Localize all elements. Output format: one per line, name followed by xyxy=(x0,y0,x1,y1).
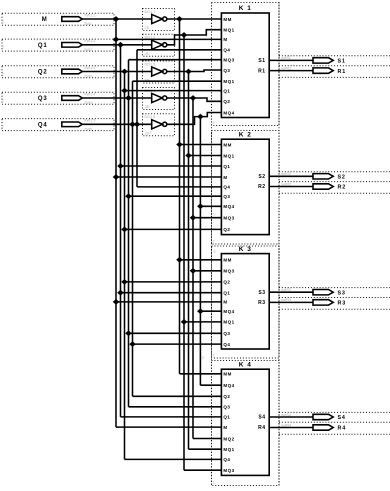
svg-text:R2: R2 xyxy=(338,185,347,191)
svg-text:Q4: Q4 xyxy=(223,457,230,462)
K3 pin 1 wire (MM) xyxy=(180,259,222,261)
K4 pin 4 wire (Q3) xyxy=(129,406,222,408)
inverter DD3 box xyxy=(143,61,175,83)
K3 pin 6 wire (MQ4) xyxy=(200,310,221,312)
svg-text:2: 2 xyxy=(213,121,215,125)
svg-text:MM: MM xyxy=(223,372,232,377)
K4 pin 8 wire (MQ1) xyxy=(189,448,222,450)
wire /Q1 inverter out elbow xyxy=(167,30,222,45)
svg-text:K 1: K 1 xyxy=(239,5,252,12)
K2 pin 7 wire (MQ4) xyxy=(200,205,221,207)
junction /M bus to K2 pin 1 xyxy=(176,142,183,148)
K2 pin 6 wire (Q3) xyxy=(129,195,222,197)
junction /Q4 bus to K3 pin 6 xyxy=(197,308,204,314)
output terminal R2 xyxy=(313,184,333,189)
svg-text:2D: 2D xyxy=(145,26,150,30)
junction Q3 tap xyxy=(125,95,132,101)
junction Q1 tap xyxy=(117,42,124,48)
wire Q4 to inverter DD5 xyxy=(82,123,151,125)
junction Q2 bus to K3 pin 3 xyxy=(121,279,128,285)
svg-text:Q1: Q1 xyxy=(223,88,230,93)
svg-text:M: M xyxy=(223,300,227,305)
module K1 body xyxy=(221,13,269,118)
K2 pin 3 wire (Q1) xyxy=(121,165,222,167)
module K2 dotted box xyxy=(212,131,280,245)
svg-text:M: M xyxy=(223,175,227,180)
svg-text:S2: S2 xyxy=(258,174,265,180)
wire Q3 to inverter DD4 xyxy=(82,97,151,99)
junction Q2 bus to K2 pin 9 xyxy=(121,227,128,233)
svg-text:S1: S1 xyxy=(258,58,265,64)
wire /Q2 inverter out to K1 pin6 xyxy=(167,70,222,72)
svg-text:S3: S3 xyxy=(258,290,265,296)
svg-text:Q2: Q2 xyxy=(223,394,230,399)
svg-text:ZW1: ZW1 xyxy=(84,22,92,26)
svg-text:Q3: Q3 xyxy=(223,331,230,336)
K4 pin 5 wire (Q1) xyxy=(121,416,222,418)
K2 pin 2 wire (MQ1) xyxy=(189,155,222,157)
K3 pin 2 wire (MQ3) xyxy=(193,270,221,272)
svg-text:DD1.3: DD1.3 xyxy=(145,62,156,66)
svg-text:Q3: Q3 xyxy=(223,68,230,73)
svg-text:MM: MM xyxy=(223,17,232,22)
svg-text:R2: R2 xyxy=(258,184,266,190)
junction Q2 bus to K1 pin 8 xyxy=(121,88,128,94)
K2 pin 9 wire (Q2) xyxy=(125,228,222,230)
svg-text:MQ4: MQ4 xyxy=(223,110,234,115)
svg-text:R4: R4 xyxy=(338,426,347,432)
svg-text:S1: S1 xyxy=(338,59,346,65)
svg-text:Q4: Q4 xyxy=(223,48,230,53)
output terminal S2 xyxy=(313,174,333,179)
K3 pin 9 wire (Q4) xyxy=(133,343,222,345)
K3 pin 5 wire (M) xyxy=(116,301,221,303)
junction /M bus to K3 pin 1 xyxy=(176,257,183,263)
svg-text:R1: R1 xyxy=(338,69,347,75)
wire vertical Q2 bus xyxy=(124,72,126,460)
wire vertical /Q4 bus xyxy=(199,117,201,386)
module K2 body xyxy=(221,139,269,234)
wire Q1 to inverter DD2 xyxy=(82,44,151,46)
K3 pin 4 wire (Q1) xyxy=(121,292,222,294)
svg-text:2: 2 xyxy=(214,250,216,254)
junction M bus to K3 pin 5 xyxy=(113,299,120,305)
junction Q4 bus to K3 pin 9 xyxy=(129,341,136,347)
junction /Q4 bus tap xyxy=(197,114,204,120)
wire vertical /Q2 bus xyxy=(188,72,190,450)
junction Q4 tap xyxy=(129,121,136,127)
wire vertical Q1 bus xyxy=(120,45,122,417)
wire vertical /Q1 bus xyxy=(183,35,185,470)
junction Q3 bus to K2 pin 6 xyxy=(125,193,132,199)
module K4 dotted box xyxy=(212,361,280,486)
svg-text:Q1: Q1 xyxy=(223,291,230,296)
input row box Q1 xyxy=(2,39,114,51)
svg-text:2D: 2D xyxy=(145,52,150,56)
K1 pin 8 wire (Q1) xyxy=(125,90,222,92)
svg-text:MQ3: MQ3 xyxy=(223,216,234,221)
inverter DD1 box xyxy=(143,9,175,31)
svg-text:MQ4: MQ4 xyxy=(223,309,234,314)
svg-text:MM: MM xyxy=(223,258,232,263)
svg-text:Q4: Q4 xyxy=(223,342,230,347)
inverter DD4 (Q3) xyxy=(152,93,163,102)
module K1 dotted box xyxy=(212,3,280,126)
svg-text:Q4: Q4 xyxy=(223,185,230,190)
junction /Q4 bus to K2 pin 7 xyxy=(197,203,204,209)
svg-text:2: 2 xyxy=(2,99,4,103)
svg-text:Q2: Q2 xyxy=(223,227,230,232)
K1 pin 4 wire (Q4) xyxy=(137,49,221,51)
svg-text:outR2: outR2 xyxy=(281,182,291,186)
svg-text:S4: S4 xyxy=(258,415,265,421)
svg-text:Q1: Q1 xyxy=(223,415,230,420)
svg-text:ZW4: ZW4 xyxy=(84,101,92,105)
junction /Q3 bus tap xyxy=(190,95,197,101)
svg-text:R4: R4 xyxy=(258,425,266,431)
svg-text:2: 2 xyxy=(213,240,215,244)
svg-text:XW1:3: XW1:3 xyxy=(84,66,95,70)
svg-text:MM: MM xyxy=(223,142,232,147)
wire /Q4 inverter out to K1 pin10 xyxy=(167,113,222,125)
svg-text:R3: R3 xyxy=(338,301,347,307)
svg-text:2: 2 xyxy=(202,356,204,360)
inverter DD1 (M) xyxy=(152,14,163,23)
inverter DD2 (Q1) xyxy=(152,40,163,49)
wire vertical Q4 bus xyxy=(132,81,134,396)
output terminal R1 xyxy=(313,68,333,73)
svg-text:Q1: Q1 xyxy=(223,164,230,169)
K4 pin 1 wire (MM) xyxy=(180,373,222,375)
svg-text:outS1: outS1 xyxy=(281,56,291,60)
junction Q1 bus to K2 pin 3 xyxy=(117,163,124,169)
input terminal Q1 xyxy=(62,43,83,48)
wire /M inverter out to K1 pin1 xyxy=(167,18,222,20)
K4 pin 6 wire (M) xyxy=(116,426,221,428)
svg-text:M: M xyxy=(223,37,227,42)
svg-text:S3: S3 xyxy=(338,290,346,296)
K4 pin 7 wire (MQ2) xyxy=(193,438,221,440)
K1 pin 3 wire (M) xyxy=(116,38,221,40)
svg-text:MQ1: MQ1 xyxy=(223,447,234,452)
input terminal M xyxy=(62,17,83,22)
svg-text:MQ3: MQ3 xyxy=(223,269,234,274)
junction /Q3 bus to K3 pin 2 xyxy=(190,268,197,274)
K4 pin 3 wire (Q2) xyxy=(133,395,222,397)
svg-text:outR1: outR1 xyxy=(281,66,291,70)
svg-text:R1: R1 xyxy=(258,68,266,74)
output row dotted lines S1/R1 xyxy=(279,55,390,57)
inverter DD4 box xyxy=(143,88,175,110)
svg-text:DD1.5: DD1.5 xyxy=(145,115,156,119)
output terminal S3 xyxy=(313,290,333,295)
svg-text:Q4: Q4 xyxy=(38,123,48,129)
output row dotted lines S4/R4 xyxy=(279,411,390,413)
junction /M bus tap xyxy=(176,16,183,22)
K2 pin 1 wire (MM) xyxy=(180,144,222,146)
input row box M xyxy=(2,13,114,25)
junction M tap xyxy=(113,16,120,22)
svg-text:Q2: Q2 xyxy=(38,70,48,76)
wire vertical /Q3 bus xyxy=(192,98,194,439)
K1 pin 7 wire (MQ1) xyxy=(133,80,222,82)
svg-text:S2: S2 xyxy=(338,175,346,181)
wire M to inverter DD1 xyxy=(82,18,151,20)
svg-text:MQ4: MQ4 xyxy=(223,383,234,388)
svg-text:M: M xyxy=(42,17,48,23)
input row box Q2 xyxy=(2,66,114,78)
svg-text:MQ1: MQ1 xyxy=(223,153,234,158)
K3 pin 3 wire (Q2) xyxy=(125,281,222,283)
svg-text:outS3: outS3 xyxy=(281,288,291,292)
svg-text:outR4: outR4 xyxy=(281,423,291,427)
junction /Q2 bus tap xyxy=(185,69,192,75)
svg-text:2: 2 xyxy=(2,20,4,24)
input terminal Q4 xyxy=(62,122,83,127)
K4 pin 2 wire (MQ4) xyxy=(200,384,221,386)
module K3 dotted box xyxy=(212,246,280,358)
output row dotted lines S3/R3 xyxy=(279,287,390,289)
svg-text:R3: R3 xyxy=(258,300,266,306)
svg-text:MQ1: MQ1 xyxy=(223,28,234,33)
junction /Q2 bus to K2 pin 2 xyxy=(185,153,192,159)
wire /Q3 inverter out to K1 pin9 xyxy=(167,98,222,101)
output terminal R4 xyxy=(313,425,333,430)
output terminal S4 xyxy=(313,414,333,419)
svg-text:2: 2 xyxy=(2,72,4,76)
input terminal Q2 xyxy=(62,69,83,74)
svg-text:Q2: Q2 xyxy=(223,280,230,285)
wire Q2 to inverter DD3 xyxy=(82,71,151,73)
wire vertical Q4 bus b xyxy=(136,50,138,187)
svg-text:K 2: K 2 xyxy=(239,131,252,138)
svg-text:Q3: Q3 xyxy=(223,405,230,410)
svg-text:ZW5: ZW5 xyxy=(84,127,92,131)
junction Q4 tap b xyxy=(134,121,141,127)
output row dotted lines S2/R2 xyxy=(279,171,390,173)
wire dotted frame right continuity xyxy=(278,3,280,486)
svg-text:M: M xyxy=(223,425,227,430)
svg-text:XW1:1: XW1:1 xyxy=(84,13,95,17)
K2 pin 8 wire (MQ3) xyxy=(193,217,221,219)
svg-text:Q1: Q1 xyxy=(38,43,48,49)
module K4 body xyxy=(221,369,269,475)
svg-text:MQ3: MQ3 xyxy=(223,58,234,63)
svg-text:MQ1: MQ1 xyxy=(223,79,234,84)
svg-text:outR3: outR3 xyxy=(281,298,291,302)
svg-text:Q3: Q3 xyxy=(223,194,230,199)
K3 pin 7 wire (MQ1) xyxy=(184,321,221,323)
svg-text:MQ2: MQ2 xyxy=(223,436,234,441)
svg-text:MQ3: MQ3 xyxy=(223,468,234,473)
junction /Q1 bus to K3 pin 7 xyxy=(181,319,188,325)
svg-text:MQ4: MQ4 xyxy=(223,204,234,209)
svg-text:2: 2 xyxy=(2,125,4,129)
inverter DD5 (Q4) xyxy=(152,120,163,129)
svg-text:K 4: K 4 xyxy=(239,361,252,368)
svg-text:DD1.1: DD1.1 xyxy=(145,10,156,14)
svg-text:S4: S4 xyxy=(338,415,346,421)
junction /Q1 bus tap xyxy=(181,32,188,38)
junction M bus to K1 pin 3 xyxy=(113,37,120,43)
svg-text:outS4: outS4 xyxy=(281,413,291,417)
wire vertical M bus xyxy=(115,19,117,427)
svg-text:outS2: outS2 xyxy=(281,172,291,176)
svg-text:XW1:4: XW1:4 xyxy=(84,92,95,96)
input row box Q3 xyxy=(2,92,114,104)
wire vertical Q3 bus xyxy=(128,60,130,407)
svg-text:2: 2 xyxy=(213,354,215,358)
module K3 body xyxy=(221,254,269,349)
svg-text:ZW3: ZW3 xyxy=(84,75,92,79)
svg-text:2: 2 xyxy=(150,131,152,135)
svg-text:XW1:5: XW1:5 xyxy=(84,119,95,123)
wire dotted frame left continuity xyxy=(211,3,213,486)
svg-text:Q3: Q3 xyxy=(38,96,48,102)
junction Q3 bus to K3 pin 8 xyxy=(125,330,132,336)
K1 pin 5 wire (MQ3) xyxy=(129,59,222,61)
K3 pin 8 wire (Q3) xyxy=(129,332,222,334)
svg-text:MQ1: MQ1 xyxy=(223,320,234,325)
svg-text:XW1:2: XW1:2 xyxy=(84,39,95,43)
inverter DD2 box xyxy=(143,34,175,56)
output terminal R3 xyxy=(313,300,333,305)
wire vertical /M bus xyxy=(179,19,181,374)
output terminal S1 xyxy=(313,58,333,63)
inverter DD5 box xyxy=(143,114,175,136)
svg-text:2D: 2D xyxy=(145,105,150,109)
inverter DD3 (Q2) xyxy=(152,67,163,76)
K2 pin 4 wire (M) xyxy=(116,176,221,178)
junction Q1 bus to K3 pin 4 xyxy=(117,290,124,296)
junction M bus to K2 pin 4 xyxy=(113,174,120,180)
junction Q2 tap xyxy=(121,69,128,75)
svg-text:K 3: K 3 xyxy=(239,246,252,253)
K4 pin 9 wire (Q4) xyxy=(125,458,222,460)
svg-text:2: 2 xyxy=(2,46,4,50)
K4 pin 10 wire (MQ3) xyxy=(184,469,221,471)
svg-text:Q2: Q2 xyxy=(223,99,230,104)
input row box Q4 xyxy=(2,119,114,131)
junction /Q3 bus to K2 pin 8 xyxy=(190,215,197,221)
input terminal Q3 xyxy=(62,96,83,101)
svg-text:2: 2 xyxy=(213,481,215,485)
K2 pin 5 wire (Q4) xyxy=(137,186,221,188)
svg-text:ZW2: ZW2 xyxy=(84,48,92,52)
